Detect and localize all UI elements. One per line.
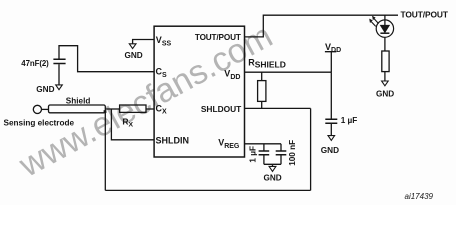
svg-text:Shield: Shield [66, 96, 91, 105]
svg-text:GND: GND [125, 51, 143, 60]
power VDD supply [325, 52, 336, 72]
wire shield drop [104, 110, 107, 113]
svg-text:VSS: VSS [156, 35, 172, 47]
ground GND5 (VREG caps) [269, 166, 276, 171]
wire node to SHLDIN pin [111, 109, 154, 140]
wire VSS pin to ground [133, 40, 155, 44]
wire RSHIELD to SHLDOUT [261, 101, 263, 108]
wire shield box to RX [105, 108, 119, 110]
wire VDD rail to RSHIELD [261, 72, 263, 80]
svg-text:1 µF: 1 µF [248, 146, 257, 163]
svg-text:SHLDOUT: SHLDOUT [201, 104, 242, 114]
svg-text:47nF(2): 47nF(2) [21, 59, 49, 68]
capacitor C2 1uF [325, 119, 337, 123]
wire C3 to junction [263, 155, 265, 164]
svg-text:VREG: VREG [218, 138, 240, 150]
resistor RX [120, 105, 146, 112]
wire TOUT/POUT pin [245, 15, 399, 37]
wire electrode to shield [42, 108, 49, 110]
LED D1 [370, 15, 394, 37]
svg-text:TOUT/POUT: TOUT/POUT [401, 10, 449, 20]
wire RX to CX pin [146, 108, 154, 110]
svg-text:RSHIELD: RSHIELD [248, 57, 286, 69]
resistor R1 [382, 51, 389, 72]
wire C1 to ground [58, 64, 60, 85]
wire shield bottom rail [105, 189, 310, 191]
wire LED to R1 [384, 37, 386, 51]
wire VREG pin [245, 143, 282, 145]
ground GND1 (VSS) [129, 44, 136, 49]
svg-text:1 µF: 1 µF [341, 116, 358, 125]
svg-text:GND: GND [36, 85, 54, 94]
svg-text:www.elecfans.com: www.elecfans.com [12, 17, 278, 185]
wire R1 to ground [384, 72, 386, 81]
svg-text:Sensing electrode: Sensing electrode [4, 118, 75, 127]
capacitor C3 1uF [259, 151, 270, 155]
wire C2 to ground [330, 124, 332, 136]
ground GND4 (C2) [328, 136, 335, 141]
cable shield box [49, 105, 106, 113]
svg-text:GND: GND [321, 146, 339, 155]
svg-text:100 nF: 100 nF [288, 140, 297, 166]
IC U1 body [154, 26, 244, 157]
wire SHLDOUT pin [245, 107, 311, 109]
svg-text:GND: GND [264, 174, 282, 183]
wire C4 to junction [280, 155, 282, 164]
resistor RSHIELD [258, 81, 266, 102]
svg-text:GND: GND [376, 89, 394, 98]
wire VDD to C2 [330, 72, 332, 119]
node sensing electrode terminal [33, 105, 41, 113]
svg-text:TOUT/POUT: TOUT/POUT [195, 33, 241, 42]
wire VDD pin rail [245, 71, 332, 73]
ground GND2 (C1) [56, 85, 63, 90]
wire VREG to C3 [263, 144, 265, 151]
wire shield riser [310, 108, 312, 190]
wire capacitor junction [264, 164, 281, 166]
wire CS pin to C1 [59, 46, 154, 72]
svg-text:ai17439: ai17439 [405, 192, 434, 201]
svg-text:SHLDIN: SHLDIN [156, 135, 190, 145]
ground GND3 (R1) [382, 81, 389, 86]
capacitor C4 100nF [276, 151, 287, 155]
capacitor C1 47nF [53, 59, 65, 63]
wire VREG to C4 [280, 144, 282, 151]
